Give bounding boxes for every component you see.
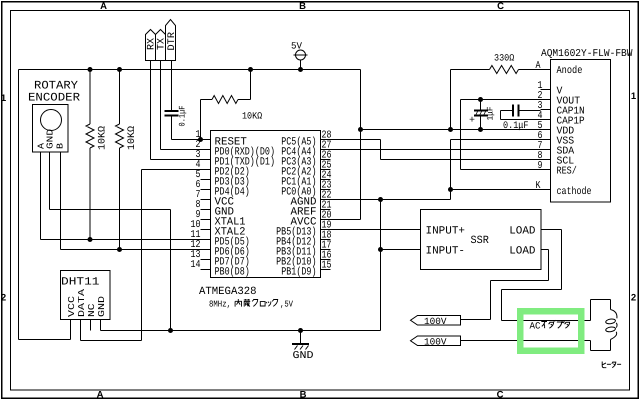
sensor DHT11 box [61, 271, 111, 320]
svg-text:INPUT+: INPUT+ [426, 226, 466, 238]
connector DTR [166, 20, 176, 61]
junction GND rail rotary [168, 328, 173, 333]
wire reset pullup right lead [238, 99, 251, 101]
svg-text:10KΩ: 10KΩ [242, 111, 262, 122]
svg-text:A: A [97, 390, 104, 400]
wire VOUT-RES net [460, 100, 462, 170]
resistor R 10K reset pullup [212, 96, 238, 104]
resistor R 330ohm [490, 66, 519, 74]
svg-text:0.1μF: 0.1μF [178, 106, 188, 127]
svg-text:10KΩ: 10KΩ [98, 126, 109, 150]
wire rotary A to PD5 [40, 152, 42, 240]
svg-text:GND: GND [97, 296, 107, 317]
svg-text:B: B [299, 1, 306, 12]
wire RX to PD1 [150, 61, 152, 160]
svg-text:100V: 100V [424, 337, 447, 348]
connector TX [156, 30, 166, 61]
junction on 5V rail at 5V symbol [298, 67, 303, 72]
svg-text:PB0(D8): PB0(D8) [215, 267, 250, 279]
junction 1uF bottom [478, 127, 483, 132]
wire TX to PD0 [160, 61, 162, 150]
junction AGND gnd-drop [378, 197, 383, 202]
display U2 AQM1602 box [551, 60, 611, 203]
wire DHT11 DATA to PD2 [80, 320, 82, 341]
capacitor C 0.1uF charge pump [512, 105, 514, 117]
IC pin stubs [201, 139, 211, 141]
junction GND rail symbol [298, 328, 303, 333]
svg-text:14: 14 [191, 259, 201, 271]
svg-text:2: 2 [631, 293, 636, 304]
wire VDD rail y130 [361, 129, 551, 131]
svg-text:Anode: Anode [557, 65, 583, 77]
wire to 330ohm [451, 69, 490, 71]
svg-text:10KΩ: 10KΩ [127, 126, 138, 150]
wire AGND y200 [321, 199, 451, 201]
wire AVCC pin20 [321, 219, 361, 221]
junction VDD rail at x360 [358, 127, 363, 132]
svg-text:DHT11: DHT11 [61, 277, 100, 289]
svg-text:K: K [536, 180, 542, 192]
junction pullup A top [88, 67, 93, 72]
wire INPUT- from gnd drop [381, 249, 421, 251]
relay SSR box [421, 210, 542, 270]
wire VDD riser to 330ohm [450, 70, 452, 130]
op IC U1 ATMEGA328 box [211, 131, 321, 278]
connector 100V upper [411, 316, 461, 326]
wire SCL PC5 to LCD [321, 139, 381, 141]
svg-text:,5V: ,5V [280, 300, 293, 310]
wire 5V rail corner down to VDD rail [360, 70, 362, 220]
wire LOAD1 to heater [541, 229, 562, 231]
power symbol 5V [300, 60, 302, 70]
junction INPUT- drop [378, 247, 383, 252]
wire LOAD2 to 100V upper [541, 249, 549, 251]
svg-text:2: 2 [1, 293, 6, 304]
capacitor C 1uF electrolytic [480, 100, 482, 111]
wire 330ohm to LCD anode [519, 69, 551, 71]
wire DHT11 VCC pin [70, 320, 72, 340]
wire gnd drop x380 [380, 200, 382, 331]
junction cathode [448, 187, 453, 192]
svg-text:+: + [469, 116, 475, 127]
connector 100V lower [411, 336, 461, 346]
junction reset pullup at 5V rail [248, 67, 253, 72]
wire DHT11 GND pin [100, 320, 102, 331]
wire rotary B to PD6 [60, 152, 62, 250]
svg-text:C: C [497, 1, 504, 12]
svg-text:B: B [56, 142, 66, 149]
svg-text:1: 1 [631, 91, 637, 102]
svg-text:INPUT-: INPUT- [426, 246, 466, 258]
resistor R pullup B 10K [119, 70, 121, 125]
svg-text:15: 15 [322, 260, 332, 272]
wire GND rail [101, 330, 381, 332]
svg-text:DTR: DTR [167, 32, 178, 51]
junction pullup B top [117, 67, 122, 72]
svg-text:AQM1602Y-FLW-FBW: AQM1602Y-FLW-FBW [541, 48, 633, 60]
svg-text:0.1μF: 0.1μF [503, 121, 529, 132]
svg-text:GND: GND [293, 350, 314, 362]
node reset junction [198, 137, 203, 142]
svg-text:9: 9 [538, 160, 543, 172]
svg-text:AC: AC [530, 321, 541, 332]
connector RX [146, 30, 156, 61]
svg-text:B: B [300, 390, 307, 400]
resistor R pullup A 10K [89, 70, 91, 125]
svg-text:DATA: DATA [77, 288, 87, 317]
wire cap to reset node [171, 116, 173, 140]
svg-text:A: A [536, 60, 542, 72]
wire 5V rail top [19, 69, 361, 71]
wire reset pullup left lead [201, 99, 213, 101]
ground symbol GND [300, 331, 302, 344]
wire DTR to cap [171, 61, 173, 112]
rotary encoder shaft circle [41, 110, 62, 131]
svg-text:SSR: SSR [471, 235, 490, 247]
svg-text:8MHz,: 8MHz, [209, 300, 231, 310]
svg-text:ATMEGA328: ATMEGA328 [199, 286, 257, 298]
svg-text:1: 1 [1, 93, 7, 104]
svg-text:A: A [100, 1, 107, 12]
wire VSS net corner [450, 140, 452, 200]
svg-text:5V: 5V [291, 41, 302, 52]
wire 100V lower to heater [461, 340, 591, 342]
capacitor C 0.1uF reset [165, 110, 179, 112]
junction 1uF top [478, 97, 483, 102]
svg-text:PB1(D9): PB1(D9) [281, 267, 316, 279]
wire INPUT+ PB5 to SSR [321, 229, 421, 231]
svg-text:100V: 100V [424, 316, 447, 327]
junction VDD rail at x450 [448, 127, 453, 132]
svg-text:cathode: cathode [557, 186, 592, 198]
wire SDA PC4 to LCD [321, 149, 551, 151]
junction pullup A bottom [88, 237, 93, 242]
svg-text:LOAD: LOAD [509, 226, 536, 238]
svg-text:VCC: VCC [67, 295, 77, 317]
wire rotary GND down [49, 152, 51, 210]
wire cathode to gnd [451, 189, 551, 191]
svg-text:RES/: RES/ [557, 166, 577, 178]
label heater katakana [602, 362, 606, 368]
svg-text:GND: GND [46, 129, 56, 149]
svg-text:LOAD: LOAD [509, 246, 536, 258]
rotary encoder box [33, 105, 69, 153]
LCD pin stubs [541, 69, 551, 71]
junction pullup B bottom [117, 247, 122, 252]
svg-text:1μF: 1μF [486, 107, 496, 121]
DHT11 NC stub [90, 320, 92, 331]
svg-text:ENCODER: ENCODER [28, 92, 80, 105]
heater outline [590, 300, 592, 321]
svg-text:330Ω: 330Ω [494, 53, 515, 64]
inductor coil heater [611, 310, 618, 340]
svg-text:C: C [497, 390, 504, 400]
highlight box AC adapter [520, 311, 581, 351]
svg-text:NC: NC [87, 303, 97, 317]
wire 5V left drop to DHT11 VCC [18, 70, 20, 340]
